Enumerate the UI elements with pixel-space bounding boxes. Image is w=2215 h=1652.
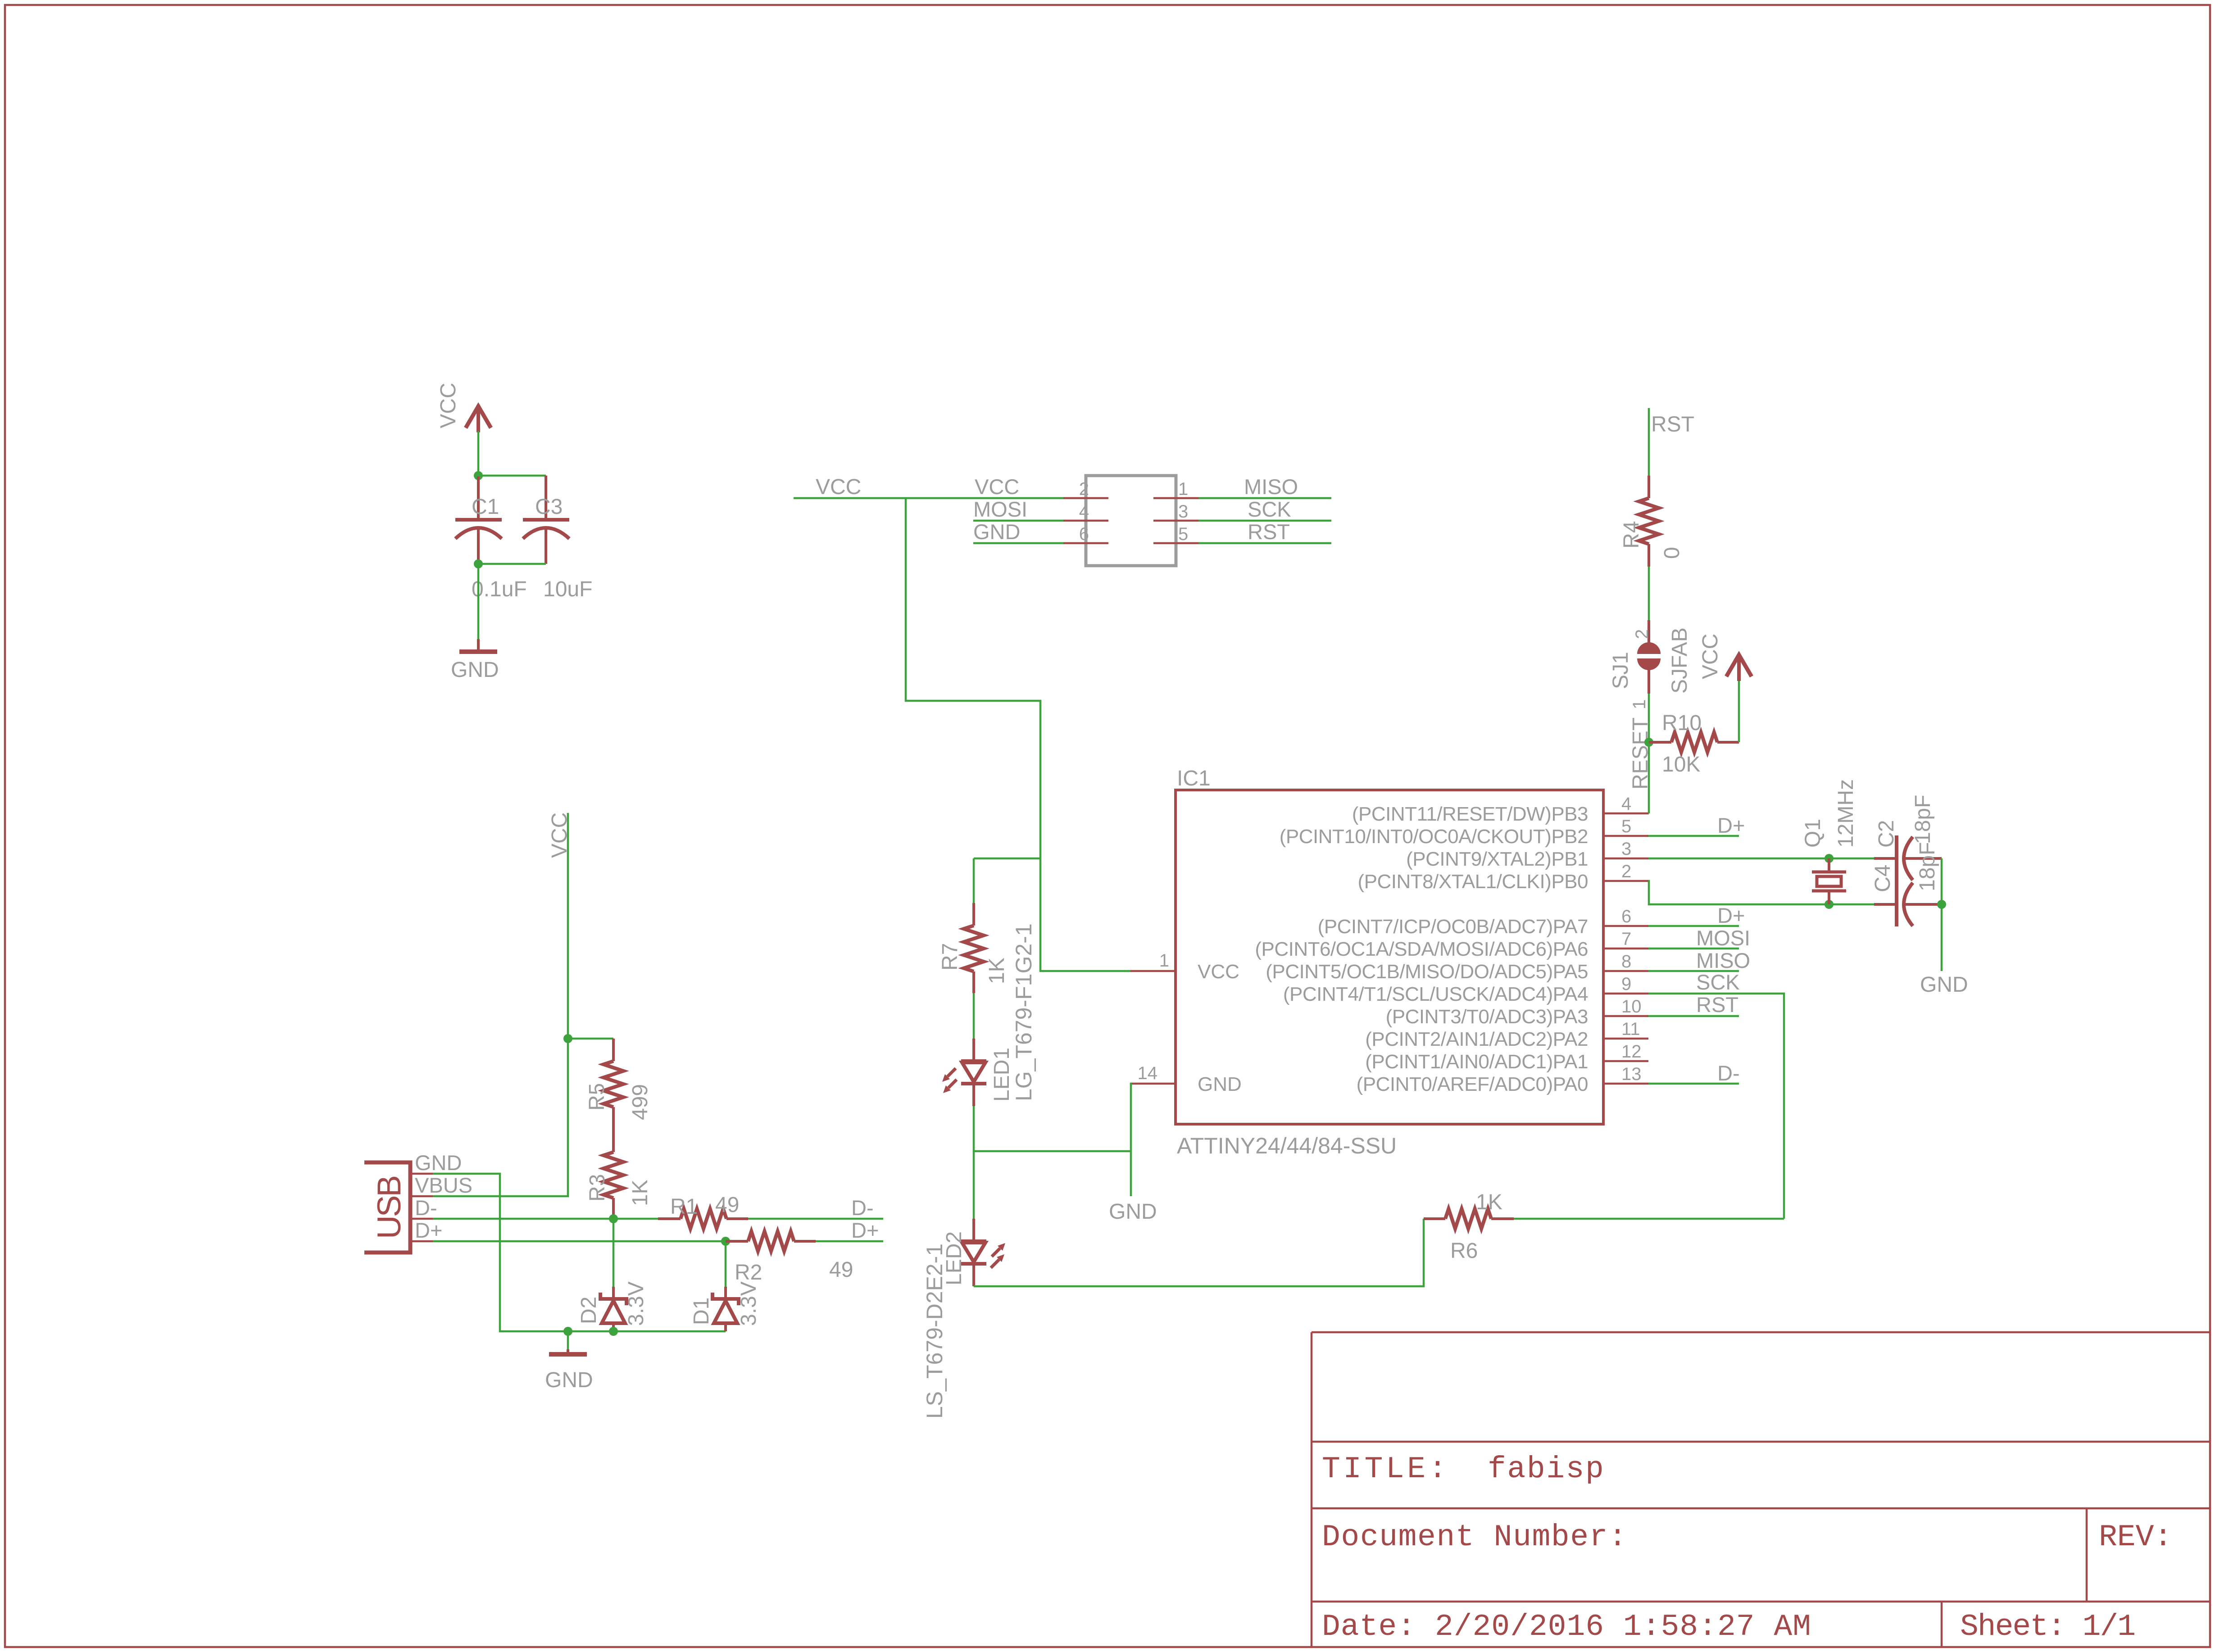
title block frame	[1312, 1332, 2210, 1647]
label R10	[1662, 711, 1702, 735]
svg-text:SJFAB: SJFAB	[1668, 627, 1692, 694]
svg-text:1K: 1K	[1476, 1190, 1502, 1214]
svg-text:49: 49	[715, 1193, 739, 1217]
wire GND stub (mid)	[1130, 1151, 1132, 1196]
MOSI net label	[1696, 926, 1750, 950]
label SCK (ISP right)	[1248, 497, 1291, 521]
pin number 12 (IC1)	[1621, 1042, 1642, 1062]
svg-text:18pF: 18pF	[1911, 795, 1935, 844]
wire pin10 RST	[1648, 1015, 1739, 1017]
wire R7 branch top	[974, 858, 1040, 860]
svg-text:VCC: VCC	[548, 812, 572, 858]
svg-text:1: 1	[1178, 479, 1188, 499]
pin label (PCINT9/XTAL2)PB1	[1406, 848, 1588, 870]
svg-text:12MHz: 12MHz	[1834, 779, 1858, 848]
svg-text:(PCINT4/T1/SCL/USCK/ADC4)PA4: (PCINT4/T1/SCL/USCK/ADC4)PA4	[1283, 983, 1588, 1005]
svg-text:D-: D-	[1717, 1061, 1740, 1085]
title text	[1322, 1452, 1605, 1487]
label C3	[535, 495, 563, 519]
svg-text:REV:: REV:	[2099, 1520, 2172, 1555]
value 499	[628, 1084, 652, 1120]
RST net label (pin10)	[1696, 993, 1738, 1017]
svg-text:D+: D+	[1717, 903, 1745, 927]
label R7	[938, 943, 962, 971]
ISP pin number 1	[1178, 479, 1188, 499]
svg-text:Document Number:: Document Number:	[1322, 1520, 1628, 1555]
zener diode D1	[713, 1241, 739, 1331]
label Q1	[1801, 819, 1825, 848]
label C2	[1875, 820, 1898, 848]
wire C2 to GND	[1941, 858, 1943, 971]
node junction D-/R3/D2	[609, 1214, 618, 1223]
svg-text:4: 4	[1079, 502, 1089, 522]
value 18pF (C2)	[1911, 795, 1935, 844]
label VBUS (USB)	[415, 1173, 472, 1197]
svg-text:3.3V: 3.3V	[624, 1281, 648, 1326]
value 10K	[1662, 753, 1700, 776]
label D2	[577, 1297, 601, 1324]
wire VCC rail	[794, 497, 1063, 499]
value LG_T679-F1G2-1	[1011, 923, 1036, 1101]
value 1K (R3)	[628, 1180, 652, 1206]
wire R2 to D+ label	[816, 1240, 883, 1243]
pin label (PCINT7/ICP/OC0B/ADC7)PA7	[1318, 916, 1588, 938]
svg-text:(PCINT2/AIN1/ADC2)PA2: (PCINT2/AIN1/ADC2)PA2	[1365, 1028, 1588, 1050]
D- net label (pin13)	[1717, 1061, 1740, 1085]
GND label (crystal)	[1920, 973, 1968, 997]
USB label	[371, 1177, 408, 1239]
svg-text:MOSI: MOSI	[973, 497, 1027, 521]
svg-text:11: 11	[1621, 1019, 1640, 1039]
pin number 13 (IC1)	[1621, 1064, 1642, 1084]
value SJFAB	[1668, 627, 1692, 694]
wire R4 to SJ1	[1648, 567, 1650, 620]
wire USB GND	[433, 1174, 726, 1331]
IC1 pin 6 stub	[1603, 925, 1648, 927]
node junction above C1	[474, 471, 483, 480]
SCK net label	[1696, 970, 1740, 994]
GND label (mid)	[1109, 1200, 1157, 1224]
value 3.3V (D1)	[737, 1281, 761, 1326]
pin number 8 (IC1)	[1621, 952, 1631, 971]
SJ1 pin number 2	[1632, 629, 1652, 639]
IC1 pin 14 (GND) stub	[1130, 1083, 1176, 1085]
svg-text:(PCINT9/XTAL2)PB1: (PCINT9/XTAL2)PB1	[1406, 848, 1588, 870]
svg-text:2: 2	[1621, 862, 1631, 881]
svg-text:SCK: SCK	[1696, 970, 1740, 994]
capacitor C1	[455, 477, 502, 564]
wire MOSI stub (ISP)	[973, 520, 1063, 522]
pin label (PCINT6/OC1A/SDA/MOSI/ADC6)PA6	[1255, 938, 1588, 960]
svg-text:Sheet: 1/1: Sheet: 1/1	[1960, 1610, 2135, 1644]
svg-text:9: 9	[1621, 974, 1631, 994]
ISP pin 2 (VCC)	[1063, 497, 1108, 499]
ISP pin 5 (RST)	[1153, 542, 1198, 545]
svg-text:C2: C2	[1875, 820, 1898, 848]
wire R6 to SCK	[1514, 1218, 1784, 1220]
pin label (PCINT2/AIN1/ADC2)PA2	[1365, 1028, 1588, 1050]
IC1 pin 12 stub	[1603, 1060, 1648, 1062]
svg-text:LS_T679-D2E2-1: LS_T679-D2E2-1	[922, 1244, 947, 1419]
pin number 1 (IC1)	[1159, 951, 1169, 971]
svg-text:(PCINT6/OC1A/SDA/MOSI/ADC6)PA6: (PCINT6/OC1A/SDA/MOSI/ADC6)PA6	[1255, 938, 1588, 960]
resistor R7	[964, 903, 984, 993]
MISO net label	[1696, 949, 1750, 972]
svg-text:2: 2	[1632, 629, 1652, 639]
pin number 14 (IC1)	[1138, 1063, 1158, 1083]
value 3.3V (D2)	[624, 1281, 648, 1326]
IC1 pin 2 stub	[1603, 880, 1648, 882]
label GND (USB)	[415, 1151, 462, 1175]
wire RESET node to IC pin 4	[1648, 742, 1650, 813]
label D- (USB)	[415, 1196, 437, 1220]
wire GND drop (USB)	[567, 1331, 569, 1349]
ISP header connector box	[1086, 476, 1176, 566]
USB pin GND stub	[410, 1173, 433, 1175]
svg-text:R1: R1	[670, 1195, 698, 1219]
D- net label (right)	[851, 1196, 874, 1220]
svg-text:MISO: MISO	[1696, 949, 1750, 972]
node junction D+/D1/R2	[721, 1237, 730, 1246]
svg-text:3: 3	[1178, 502, 1188, 522]
svg-text:GND: GND	[973, 520, 1020, 544]
value 1K (R6)	[1476, 1190, 1502, 1214]
svg-text:6: 6	[1621, 907, 1631, 926]
wire SJ1 to RESET node	[1648, 694, 1650, 742]
svg-text:(PCINT1/AIN0/ADC1)PA1: (PCINT1/AIN0/ADC1)PA1	[1365, 1051, 1588, 1073]
IC1 pin 8 stub	[1603, 970, 1648, 972]
wire pin9 SCK	[1648, 994, 1784, 1219]
IC1 pin 13 stub	[1603, 1083, 1648, 1085]
svg-text:R2: R2	[735, 1261, 762, 1284]
svg-text:10uF: 10uF	[543, 577, 592, 601]
svg-text:LED1: LED1	[990, 1048, 1014, 1102]
IC1 pin 9 stub	[1603, 993, 1648, 995]
pin label (PCINT0/AREF/ADC0)PA0	[1357, 1073, 1588, 1095]
wire pin8 MISO	[1648, 970, 1739, 972]
LED LED2	[961, 1219, 1005, 1286]
pin number 11 (IC1)	[1621, 1019, 1640, 1039]
capacitor C4	[1874, 883, 1942, 926]
VCC power symbol (top-left)	[466, 406, 491, 432]
resistor R5	[604, 1039, 623, 1130]
wire RST stub	[1648, 408, 1650, 476]
wire USB VBUS to VCC	[433, 813, 568, 1196]
label R5	[585, 1083, 609, 1111]
pin label (PCINT11/RESET/DW)PB3	[1352, 803, 1588, 825]
label VCC (IC1)	[1198, 961, 1239, 983]
svg-text:(PCINT5/OC1B/MISO/DO/ADC5)PA5: (PCINT5/OC1B/MISO/DO/ADC5)PA5	[1266, 961, 1588, 983]
label LED2	[942, 1231, 966, 1285]
svg-text:5: 5	[1621, 817, 1631, 836]
wire pin13 D-	[1648, 1083, 1739, 1085]
svg-text:VBUS: VBUS	[415, 1173, 472, 1197]
label R4	[1620, 521, 1643, 549]
USB pin VBUS stub	[410, 1195, 433, 1198]
RESET net label	[1629, 717, 1652, 790]
SJ1 pin number 1	[1629, 699, 1649, 709]
wire GND branch to pin14	[1131, 1084, 1132, 1151]
wire R10 to VCC arrow	[1738, 681, 1740, 742]
label C4	[1871, 865, 1895, 892]
svg-text:3.3V: 3.3V	[737, 1281, 761, 1326]
svg-text:12: 12	[1621, 1042, 1642, 1062]
svg-text:C4: C4	[1871, 865, 1895, 892]
svg-text:GND: GND	[451, 658, 499, 682]
svg-text:(PCINT3/T0/ADC3)PA3: (PCINT3/T0/ADC3)PA3	[1386, 1006, 1588, 1028]
REV text	[2099, 1520, 2172, 1555]
label R2	[735, 1261, 762, 1284]
value 10uF	[543, 577, 592, 601]
ISP pin number 3	[1178, 502, 1188, 522]
svg-text:D2: D2	[577, 1297, 601, 1324]
svg-text:GND: GND	[415, 1151, 462, 1175]
svg-text:1K: 1K	[628, 1180, 652, 1206]
svg-text:0: 0	[1660, 547, 1684, 559]
svg-text:1K: 1K	[985, 958, 1009, 984]
resistor R3	[604, 1130, 623, 1219]
IC1 pin 1 (VCC) stub	[1130, 970, 1176, 972]
label IC1	[1177, 767, 1211, 790]
svg-text:D+: D+	[851, 1218, 879, 1242]
IC1 pin 4 stub	[1603, 812, 1648, 815]
svg-text:13: 13	[1621, 1064, 1642, 1084]
svg-text:D-: D-	[851, 1196, 874, 1220]
value 49 (R2)	[829, 1258, 853, 1282]
value 18pF (C4)	[1915, 842, 1939, 891]
svg-text:R10: R10	[1662, 711, 1702, 735]
svg-text:VCC: VCC	[1698, 634, 1722, 679]
VCC label (SJ1 area)	[1698, 634, 1722, 679]
svg-text:499: 499	[628, 1084, 652, 1120]
D+ net label (right)	[851, 1218, 879, 1242]
USB pin D- stub	[410, 1218, 433, 1220]
wire pin2 to crystal	[1648, 881, 1874, 904]
GND label (USB)	[545, 1368, 593, 1392]
VCC net label (rail)	[816, 475, 861, 499]
wire LED1 branch to LED2	[973, 1151, 975, 1219]
wire pin3 to crystal	[1648, 858, 1874, 860]
svg-text:8: 8	[1621, 952, 1631, 971]
pin label (PCINT3/T0/ADC3)PA3	[1386, 1006, 1588, 1028]
VCC power symbol (right)	[1726, 655, 1752, 681]
capacitor C2	[1874, 835, 1942, 926]
svg-text:R6: R6	[1450, 1239, 1478, 1263]
svg-text:IC1: IC1	[1177, 767, 1211, 790]
svg-text:Q1: Q1	[1801, 819, 1825, 848]
IC1 pin 5 stub	[1603, 835, 1648, 837]
svg-text:R4: R4	[1620, 521, 1643, 549]
zener diode D2	[600, 1219, 626, 1331]
svg-text:C1: C1	[472, 495, 499, 519]
wire pin6 D+	[1648, 925, 1739, 927]
svg-text:GND: GND	[1198, 1073, 1242, 1095]
ISP pin 6 (GND)	[1063, 542, 1108, 545]
svg-text:VCC: VCC	[436, 383, 460, 428]
pin number 4 (IC1)	[1621, 794, 1631, 814]
ground GND (top-left)	[459, 639, 497, 652]
wire USB D+	[433, 1240, 726, 1243]
svg-text:TITLE:: TITLE:	[1322, 1452, 1450, 1487]
label GND (ISP left)	[973, 520, 1020, 544]
pin label (PCINT1/AIN0/ADC1)PA1	[1365, 1051, 1588, 1073]
node junction C4/GND	[1937, 900, 1946, 909]
svg-text:GND: GND	[545, 1368, 593, 1392]
ground GND (USB)	[549, 1349, 587, 1354]
svg-text:LG_T679-F1G2-1: LG_T679-F1G2-1	[1011, 923, 1036, 1101]
pin number 10 (IC1)	[1621, 997, 1642, 1017]
svg-text:(PCINT7/ICP/OC0B/ADC7)PA7: (PCINT7/ICP/OC0B/ADC7)PA7	[1318, 916, 1588, 938]
svg-text:GND: GND	[1920, 973, 1968, 997]
svg-text:10K: 10K	[1662, 753, 1700, 776]
ISP pin number 5	[1178, 524, 1188, 544]
VCC label (top-left)	[436, 383, 460, 428]
label ATTINY24/44/84-SSU	[1177, 1133, 1397, 1158]
svg-text:(PCINT8/XTAL1/CLKI)PB0: (PCINT8/XTAL1/CLKI)PB0	[1358, 871, 1588, 893]
label MOSI (ISP left)	[973, 497, 1027, 521]
label D1	[690, 1298, 713, 1325]
node junction VCC/R5	[563, 1034, 572, 1043]
USB pin D+ stub	[410, 1240, 433, 1243]
solder jumper SJ1	[1637, 620, 1661, 694]
sheet text	[1960, 1610, 2135, 1644]
resistor R1	[658, 1209, 748, 1229]
svg-text:MOSI: MOSI	[1696, 926, 1750, 950]
wire node to C3 branch	[478, 475, 546, 477]
svg-text:49: 49	[829, 1258, 853, 1282]
svg-text:SCK: SCK	[1248, 497, 1291, 521]
pin label (PCINT5/OC1B/MISO/DO/ADC5)PA5	[1266, 961, 1588, 983]
wire R7 top lead	[973, 858, 975, 903]
value LS_T679-D2E2-1	[922, 1244, 947, 1419]
wire C3 bottom to node	[478, 563, 546, 565]
svg-text:RST: RST	[1651, 413, 1694, 436]
svg-text:MISO: MISO	[1244, 475, 1298, 499]
label R6	[1450, 1239, 1478, 1263]
pin label (PCINT4/T1/SCL/USCK/ADC4)PA4	[1283, 983, 1588, 1005]
svg-text:(PCINT0/AREF/ADC0)PA0: (PCINT0/AREF/ADC0)PA0	[1357, 1073, 1588, 1095]
label RST (ISP right)	[1248, 520, 1290, 544]
ISP pin 1 (MISO)	[1153, 497, 1198, 499]
pin label (PCINT10/INT0/OC0A/CKOUT)PB2	[1280, 826, 1588, 848]
svg-text:VCC: VCC	[1198, 961, 1239, 983]
pin number 9 (IC1)	[1621, 974, 1631, 994]
wire USB D-	[433, 1218, 658, 1220]
date text	[1322, 1610, 1811, 1644]
label GND (IC1)	[1198, 1073, 1242, 1095]
pin number 5 (IC1)	[1621, 817, 1631, 836]
pin number 6 (IC1)	[1621, 907, 1631, 926]
svg-text:18pF: 18pF	[1915, 842, 1939, 891]
label R3	[586, 1174, 609, 1202]
resistor R10	[1649, 732, 1739, 752]
svg-text:3: 3	[1621, 839, 1631, 859]
node junction below C1	[474, 559, 483, 568]
IC1 ATTINY24/44/84 body	[1176, 790, 1603, 1124]
wire pin4 to RESET node	[1648, 812, 1649, 815]
wire SCK stub (ISP)	[1198, 520, 1331, 522]
ISP pin number 4	[1079, 502, 1089, 522]
wire VCC arrow to node	[477, 431, 480, 476]
value 0 (R4)	[1660, 547, 1684, 559]
IC1 pin 3 stub	[1603, 858, 1648, 860]
D+ net label (pin6)	[1717, 903, 1745, 927]
wire R1 to D- label	[748, 1218, 883, 1220]
svg-text:RST: RST	[1696, 993, 1738, 1017]
svg-text:2: 2	[1079, 479, 1089, 499]
svg-text:USB: USB	[371, 1177, 408, 1239]
wire pin7 MOSI	[1648, 948, 1739, 950]
svg-text:GND: GND	[1109, 1200, 1157, 1224]
svg-text:6: 6	[1079, 524, 1089, 544]
label LED1	[990, 1048, 1014, 1102]
wire VCC rail drop	[906, 498, 1130, 971]
wire LED1 to GND branch	[974, 1106, 1131, 1151]
label C1	[472, 495, 499, 519]
label D+ (USB)	[415, 1218, 442, 1242]
pin number 7 (IC1)	[1621, 929, 1631, 949]
label R1	[670, 1195, 698, 1219]
capacitor C3	[523, 476, 569, 564]
svg-text:SJ1: SJ1	[1609, 652, 1633, 689]
wire VCC to R5	[568, 1038, 613, 1040]
label MISO (ISP right)	[1244, 475, 1298, 499]
svg-text:R7: R7	[938, 943, 962, 971]
wire R7 to LED1	[973, 993, 975, 1039]
resistor R4	[1639, 476, 1659, 567]
D+ net label (pin5)	[1717, 813, 1745, 837]
wire MISO stub (ISP)	[1198, 497, 1331, 499]
crystal Q1	[1812, 858, 1846, 904]
node junction GND drop	[563, 1327, 572, 1336]
svg-text:RST: RST	[1248, 520, 1290, 544]
svg-text:5: 5	[1178, 524, 1188, 544]
svg-text:7: 7	[1621, 929, 1631, 949]
node junction RESET/R10	[1644, 738, 1653, 747]
svg-text:0.1uF: 0.1uF	[472, 577, 527, 601]
ISP pin 4 (MOSI)	[1063, 520, 1108, 522]
label SJ1	[1609, 652, 1633, 689]
wire node to GND	[477, 564, 480, 639]
svg-text:VCC: VCC	[975, 475, 1019, 499]
node junction crystal top	[1825, 854, 1834, 863]
svg-text:D-: D-	[415, 1196, 437, 1220]
wire RST stub (ISP)	[1198, 542, 1331, 545]
svg-text:fabisp: fabisp	[1488, 1452, 1605, 1487]
svg-text:10: 10	[1621, 997, 1642, 1017]
wire LED2 to R6	[974, 1219, 1424, 1286]
resistor R2	[726, 1231, 816, 1251]
value 49 (R1)	[715, 1193, 739, 1217]
svg-text:4: 4	[1621, 794, 1631, 814]
label VCC (ISP left)	[975, 475, 1019, 499]
svg-text:(PCINT10/INT0/OC0A/CKOUT)PB2: (PCINT10/INT0/OC0A/CKOUT)PB2	[1280, 826, 1588, 848]
svg-text:(PCINT11/RESET/DW)PB3: (PCINT11/RESET/DW)PB3	[1352, 803, 1588, 825]
document number text	[1322, 1520, 1628, 1555]
svg-text:D+: D+	[1717, 813, 1745, 837]
IC1 pin 10 stub	[1603, 1015, 1648, 1017]
wire pin5 D+	[1648, 835, 1739, 837]
resistor R6	[1424, 1209, 1514, 1229]
value 0.1uF	[472, 577, 527, 601]
svg-text:D1: D1	[690, 1298, 713, 1325]
node junction crystal bottom	[1825, 900, 1834, 909]
svg-text:VCC: VCC	[816, 475, 861, 499]
svg-text:D+: D+	[415, 1218, 442, 1242]
svg-text:R5: R5	[585, 1083, 609, 1111]
ISP pin number 6	[1079, 524, 1089, 544]
svg-text:14: 14	[1138, 1063, 1158, 1083]
